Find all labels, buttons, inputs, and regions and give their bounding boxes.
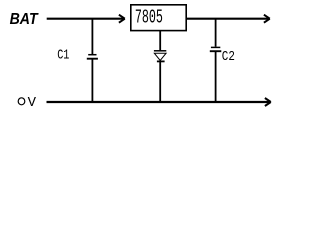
arrowhead output rail (264, 15, 270, 23)
wire: ground rail (47, 101, 270, 103)
svg-text:BAT: BAT (10, 11, 39, 28)
capacitor C2 (210, 18, 222, 102)
diode D1 (regulator output to ground) (154, 31, 166, 103)
regulator U1 box (7805) (131, 5, 186, 31)
arrowhead ground rail (265, 98, 271, 106)
svg-text:V: V (28, 96, 36, 111)
label 0V (ground net): O glyph (18, 98, 25, 105)
capacitor C1 (87, 18, 98, 102)
arrowhead into regulator input (119, 15, 125, 23)
svg-text:7805: 7805 (135, 7, 163, 29)
wire: battery input rail (47, 18, 123, 20)
svg-text:C2: C2 (222, 50, 235, 65)
svg-text:C1: C1 (57, 48, 69, 63)
wire: regulator output rail (187, 18, 269, 20)
